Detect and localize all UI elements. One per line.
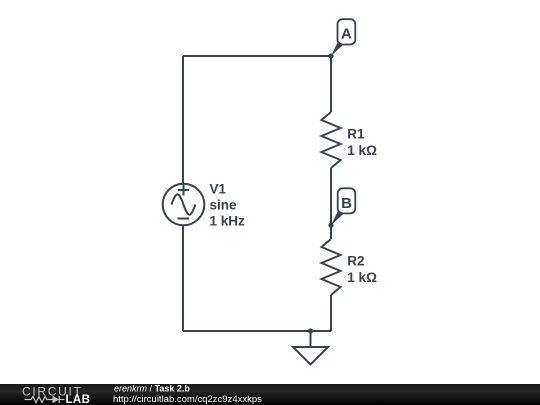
wire bottom horizontal from V1 to right branch	[183, 330, 331, 332]
footer bar	[0, 384, 540, 405]
ground	[293, 347, 328, 365]
junction node B dot	[328, 223, 333, 228]
svg-text:V1: V1	[210, 182, 227, 197]
wire R1 bottom to R2 top (through node B)	[330, 168, 332, 239]
svg-text:LAB: LAB	[66, 394, 91, 405]
resistor R2	[322, 239, 341, 295]
svg-text:erenkrm / Task 2.b: erenkrm / Task 2.b	[114, 384, 190, 394]
wire ground stub	[310, 331, 312, 347]
svg-text:sine: sine	[210, 198, 238, 213]
svg-text:1 kΩ: 1 kΩ	[347, 270, 377, 285]
node B callout	[331, 188, 355, 225]
resistor R1	[322, 112, 341, 168]
junction node A dot	[328, 53, 333, 58]
svg-text:http://circuitlab.com/cq2zc9z4: http://circuitlab.com/cq2zc9z4xxkps	[113, 394, 262, 405]
wire top horizontal from V1 to node A	[183, 55, 331, 57]
wire node A to R1 top	[330, 56, 332, 112]
svg-text:R2: R2	[347, 254, 364, 269]
junction ground dot	[308, 328, 313, 333]
wire R2 bottom to bottom wire	[330, 295, 332, 331]
wire left vertical top (V1 plus terminal to top wire)	[182, 56, 184, 184]
svg-text:R1: R1	[347, 127, 365, 142]
svg-text:1 kΩ: 1 kΩ	[347, 143, 377, 158]
wire left vertical bottom (V1 minus terminal to bottom wire)	[182, 226, 184, 332]
svg-text:A: A	[341, 25, 352, 42]
svg-text:1 kHz: 1 kHz	[210, 214, 246, 229]
voltage source V1	[163, 184, 205, 226]
svg-text:B: B	[341, 195, 352, 212]
logo resistor-diode squiggle	[25, 396, 65, 403]
node A callout	[331, 19, 355, 56]
